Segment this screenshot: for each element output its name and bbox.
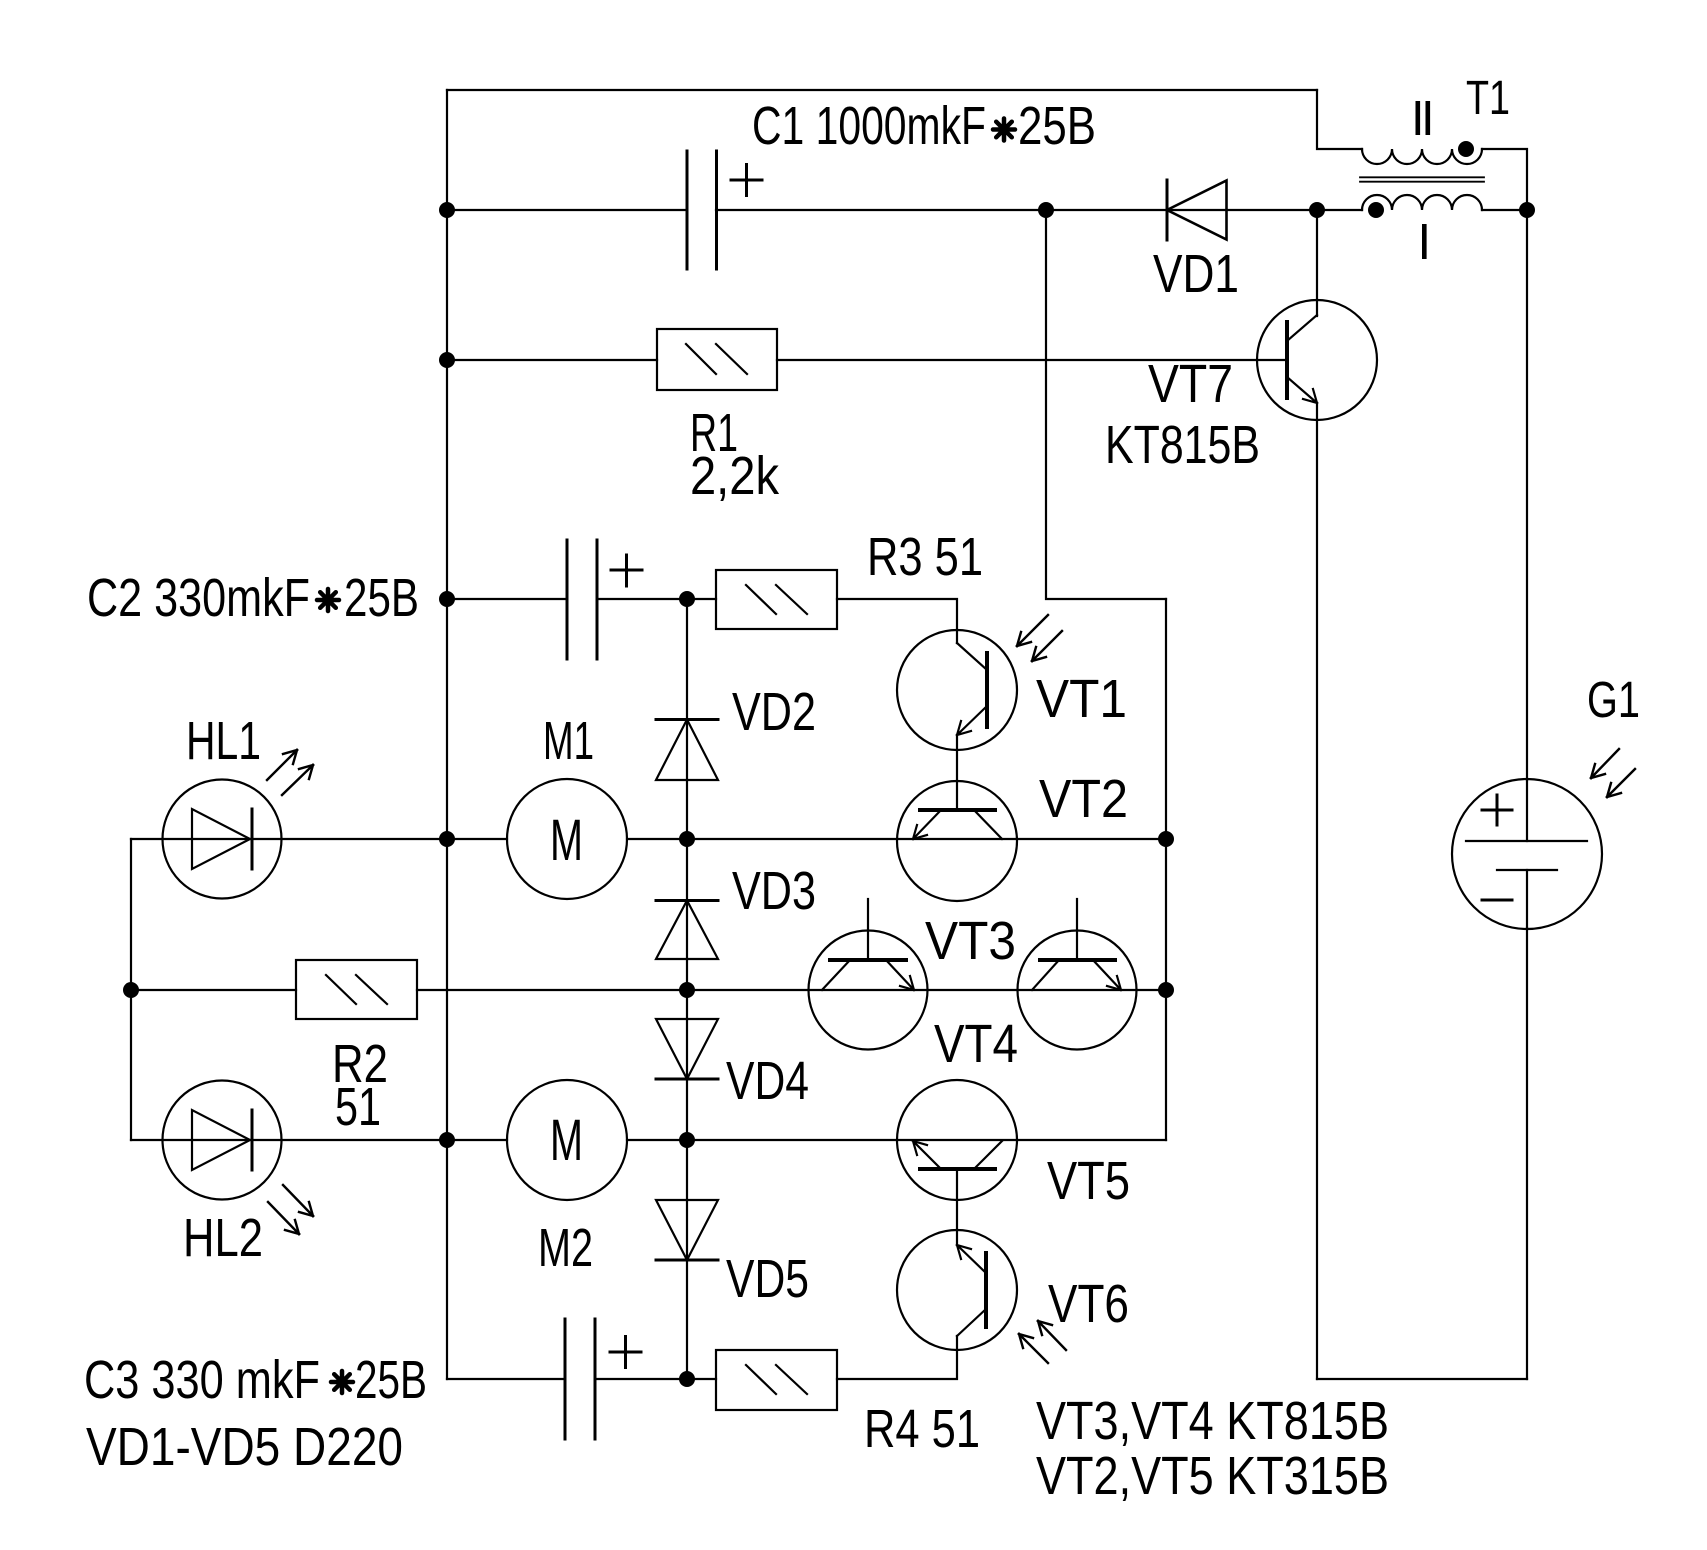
junction node VD1 right [1309, 202, 1325, 218]
svg-text:M: M [550, 1108, 583, 1173]
transistor VT6 [897, 1230, 1066, 1363]
motor M1 [507, 779, 627, 899]
svg-text:VD1-VD5 D220: VD1-VD5 D220 [86, 1417, 403, 1477]
svg-text:M: M [550, 808, 583, 873]
svg-text:VD4: VD4 [726, 1051, 809, 1111]
junction node left rail y=839 [439, 831, 455, 847]
svg-text:M1: M1 [543, 711, 594, 771]
junction node left rail y=210 [439, 202, 455, 218]
resistor R2 [296, 960, 417, 1019]
svg-text:VD5: VD5 [726, 1249, 809, 1309]
transformer T1 winding I numeral [1422, 224, 1427, 259]
svg-text:R3 51: R3 51 [867, 527, 983, 587]
wire C3 to R4 [595, 1378, 716, 1380]
svg-text:C1 1000mkF: C1 1000mkF [752, 96, 986, 156]
wire main horizontal y=210 [447, 209, 687, 211]
junction node left rail y=1140 [439, 1132, 455, 1148]
svg-text:25B: 25B [1018, 96, 1096, 156]
junction node left loop R2 [123, 982, 139, 998]
resistor R4 [716, 1350, 837, 1410]
svg-text:VD2: VD2 [732, 682, 816, 742]
value label C1 star [993, 119, 1015, 141]
svg-text:KT815B: KT815B [1105, 415, 1260, 475]
transistor VT3 [809, 899, 928, 1050]
value label C3 star [331, 1371, 353, 1393]
motor M2 [507, 1080, 627, 1200]
transistor VT5 [897, 1080, 1017, 1245]
svg-text:51: 51 [335, 1077, 381, 1137]
svg-text:VT4: VT4 [934, 1014, 1018, 1074]
wire VT7 collector [1316, 210, 1318, 316]
wire M1 to VT2 row [627, 838, 1166, 840]
svg-text:VT1: VT1 [1036, 669, 1127, 729]
transistor VT7 [1257, 300, 1377, 420]
capacitor C2 [567, 540, 642, 659]
transistor VT4 [1018, 899, 1137, 1050]
diode VD2 [656, 720, 718, 781]
wire y=210 winding I right to G1 rail [1482, 209, 1527, 211]
wire HL2 row [131, 1139, 507, 1141]
junction node T1 winding I right [1519, 202, 1535, 218]
wire M2 to VT5 row [627, 1139, 1017, 1141]
junction node mid column y=599 [679, 591, 695, 607]
transformer T1 polarity dot winding I [1368, 202, 1384, 218]
svg-text:T1: T1 [1466, 72, 1510, 125]
wire C2 to R3 [597, 598, 716, 600]
LED HL1 [163, 750, 314, 899]
wire top rail [447, 89, 1317, 91]
junction node mid column y=990 [679, 982, 695, 998]
diode VD5 [656, 1200, 718, 1260]
diode VD3 [656, 901, 718, 960]
svg-text:VT2: VT2 [1039, 769, 1128, 829]
svg-text:VT3: VT3 [925, 911, 1016, 971]
svg-text:VT5: VT5 [1047, 1151, 1130, 1211]
svg-text:G1: G1 [1587, 671, 1640, 728]
svg-text:VT3,VT4 KT815B: VT3,VT4 KT815B [1036, 1391, 1389, 1451]
transistor VT2 [897, 781, 1017, 901]
wire R1 row right to VT7 base [777, 359, 1287, 361]
svg-text:VD1: VD1 [1153, 244, 1239, 304]
svg-text:M2: M2 [538, 1218, 593, 1278]
wire R2 row left [131, 989, 296, 991]
svg-text:25B: 25B [344, 568, 419, 628]
svg-text:R4 51: R4 51 [864, 1399, 980, 1459]
junction node right rail y=839 [1158, 831, 1174, 847]
wire bottom row left [447, 1378, 565, 1380]
wire y=210 from C1 to winding I [716, 209, 1362, 211]
wire left loop vertical [130, 839, 132, 1140]
junction node mid column y=839 [679, 831, 695, 847]
capacitor C3 [565, 1319, 641, 1439]
wire C1 junction drop [1046, 210, 1166, 599]
transformer T1 winding II [1362, 149, 1482, 164]
wire G1 rail upper [1526, 210, 1528, 780]
junction node mid column y=1379 [679, 1371, 695, 1387]
transformer T1 polarity dot winding II [1458, 141, 1474, 157]
wire top right step down [1317, 90, 1362, 149]
transformer T1 winding II numeral [1416, 101, 1431, 135]
transformer T1 winding I [1362, 195, 1482, 210]
diode VD4 [656, 1019, 718, 1079]
diode VD1 [1167, 180, 1227, 240]
junction node left rail y=599 [439, 591, 455, 607]
junction node C1 right [1038, 202, 1054, 218]
LED HL2 [163, 1081, 314, 1235]
wire R2 row right through VT3 VT4 [417, 989, 1166, 991]
wire winding II to right corner [1482, 149, 1527, 210]
svg-text:VT2,VT5 KT315B: VT2,VT5 KT315B [1036, 1446, 1389, 1506]
junction node left rail y=360 [439, 352, 455, 368]
wire mid column [686, 599, 688, 1379]
wire R1 row left [447, 359, 657, 361]
resistor R3 [716, 570, 837, 629]
svg-text:VT6: VT6 [1048, 1274, 1129, 1334]
junction node mid column y=1140 [679, 1132, 695, 1148]
transistor VT1 [897, 615, 1062, 810]
svg-text:HL1: HL1 [186, 711, 261, 771]
transformer T1 core [1360, 177, 1484, 181]
svg-text:HL2: HL2 [183, 1208, 263, 1268]
capacitor C1 [687, 151, 762, 269]
svg-text:25B: 25B [355, 1350, 427, 1410]
wire G1 rail lower [1526, 928, 1528, 1379]
wire VT5 row to right rail corner [1017, 1139, 1166, 1141]
wire left rail [446, 90, 448, 1379]
value label C2 star [317, 589, 339, 611]
svg-text:C3 330 mkF: C3 330 mkF [84, 1350, 320, 1410]
svg-text:VT7: VT7 [1148, 354, 1233, 414]
wire VT7 emitter down [1316, 403, 1318, 1379]
wire bottom right link [1317, 1378, 1527, 1380]
solar battery G1 [1452, 749, 1635, 929]
svg-text:VD3: VD3 [732, 861, 816, 921]
svg-text:C2 330mkF: C2 330mkF [87, 568, 310, 628]
wire right rail x=1166 [1165, 599, 1167, 1140]
svg-text:2,2k: 2,2k [690, 446, 780, 506]
wire HL1 row [131, 838, 507, 840]
resistor R1 [657, 329, 777, 390]
wire R3 to VT1 drop [837, 599, 957, 643]
wire R4 to VT6 [837, 1336, 957, 1379]
wire C2 row left [447, 598, 567, 600]
junction node right rail y=990 [1158, 982, 1174, 998]
